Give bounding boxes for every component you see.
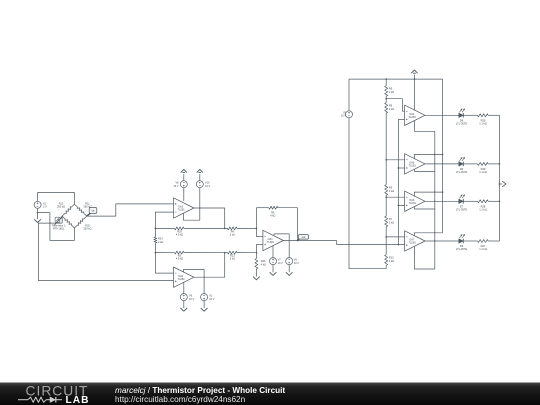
svg-text:1.1 kΩ: 1.1 kΩ [479, 247, 487, 251]
wire OA4 V- pin [414, 120, 434, 131]
supply flag above V10 [197, 169, 203, 180]
wire tap3 to OA6 - [386, 196, 404, 198]
wire ladder 2 [385, 113, 387, 185]
ground below V9 [180, 301, 187, 312]
wire OA2 output [194, 253, 225, 278]
svg-text:10 V: 10 V [294, 262, 299, 265]
wire ladder [385, 96, 387, 102]
wire V9 to OA2 [183, 282, 185, 293]
wire V8 to OA3 V+ [183, 188, 185, 201]
resistor R12 (bridge top-left) [57, 202, 74, 216]
wire signal to OA5 + [398, 167, 404, 169]
wire rail1 right [237, 227, 256, 229]
svg-text:2 kΩ: 2 kΩ [389, 91, 394, 94]
wire resistor to right rail [488, 163, 499, 165]
wire LED to resistor [464, 240, 478, 242]
op-amp OA1 [263, 230, 283, 250]
svg-text:10 V: 10 V [341, 115, 346, 118]
junction OA3 out [224, 228, 226, 230]
resistor R20 [175, 227, 185, 237]
wire V7 to OA1 [272, 246, 274, 258]
svg-text:out: out [302, 236, 306, 239]
node tag out [298, 235, 309, 241]
svg-text:RTH (kΩ): RTH (kΩ) [53, 228, 64, 231]
resistor R5 [385, 185, 395, 196]
resistor R6 (feedback) [256, 206, 297, 217]
wire ladder bottom [385, 265, 387, 268]
svg-text:2 kΩ: 2 kΩ [230, 233, 235, 236]
wire ladder 4 [385, 227, 387, 255]
svg-text:2 kΩ: 2 kΩ [389, 190, 394, 193]
svg-text:TL081: TL081 [409, 116, 417, 119]
svg-text:4 kΩ: 4 kΩ [270, 214, 275, 217]
svg-text:LTL-307E: LTL-307E [456, 247, 467, 251]
wire OA4 V+ pin [413, 79, 415, 110]
wire junction to bridge bottom [38, 213, 75, 241]
wire feedback down [297, 208, 299, 241]
resistor R24 (gain) [154, 228, 163, 252]
wire V2 to OA2 V+ [183, 270, 204, 294]
resistor R9 [385, 86, 395, 97]
junction sig3 [398, 205, 400, 207]
wire OA6 V- pin [414, 206, 434, 209]
node tag output arrow [499, 181, 506, 187]
resistor R4 [228, 227, 238, 237]
wire resistor to right rail [488, 114, 499, 116]
wire rail2 left [155, 252, 174, 254]
svg-text:LTL-307E: LTL-307E [456, 121, 467, 125]
svg-text:1.1 kΩ: 1.1 kΩ [479, 121, 487, 125]
ground below V1 [34, 213, 41, 223]
voltage source V5 [341, 79, 353, 118]
junction stage2 + [256, 252, 258, 254]
svg-text:2 V: 2 V [43, 206, 47, 209]
resistor R11 (bridge top-right) [74, 202, 91, 216]
svg-text:LTL-307E: LTL-307E [456, 170, 467, 174]
wire signal to OA4 + [398, 118, 404, 120]
resistor R30 [478, 162, 489, 174]
svg-text:TL081: TL081 [409, 165, 417, 168]
wire resistor to right rail [488, 200, 499, 202]
junction ladder top [385, 78, 387, 80]
wire OA5 V- pin [414, 169, 434, 172]
wire OA4 output [425, 114, 459, 116]
wire tap2 to OA5 - [386, 159, 404, 161]
svg-text:10 V: 10 V [173, 185, 178, 188]
junction tap4 [385, 236, 387, 238]
wire rail2 right [237, 252, 256, 254]
wire OA3 - input [155, 212, 173, 228]
op-amp OA2 [174, 267, 194, 287]
svg-text:TL081: TL081 [267, 241, 275, 244]
svg-text:TL081: TL081 [409, 202, 417, 205]
op-amp OA4 [405, 105, 425, 125]
resistor R23 [228, 251, 238, 261]
thermistor RTH1 (bridge bottom-left) [51, 216, 74, 230]
svg-text:LAB: LAB [66, 395, 90, 405]
op-amp OA7 [405, 231, 425, 251]
wire OA2 - input [155, 253, 173, 273]
wire bridge output to bottom rail [38, 223, 173, 281]
ground below V7 [270, 265, 277, 276]
wire bridge right to OA3 + [87, 204, 174, 216]
footer bar with CircuitLab logo and attribution [0, 383, 540, 405]
svg-text:1.1 kΩ: 1.1 kΩ [479, 207, 487, 211]
wire to OA1 + [256, 243, 263, 245]
wire rail2 mid [184, 252, 228, 254]
wire signal to OA6 + [398, 204, 404, 206]
svg-text:10 V: 10 V [205, 185, 210, 188]
wire OA7 output [425, 240, 459, 242]
svg-text:4.9 kΩ: 4.9 kΩ [176, 258, 183, 261]
resistor R10 [385, 255, 395, 266]
wire V6 to OA1 V+ [274, 234, 289, 258]
junction rail2 left [155, 252, 157, 254]
svg-text:250 kΩ: 250 kΩ [84, 228, 92, 231]
gap rail 3 [414, 233, 443, 236]
top rail +10V [349, 78, 443, 80]
supply flag top [411, 70, 417, 79]
svg-text:10 V: 10 V [189, 298, 194, 301]
resistor R27 [478, 240, 489, 252]
wire tap4 to OA7 - [386, 236, 404, 238]
wire resistor to right rail [488, 240, 499, 242]
junction tap1 [385, 98, 387, 100]
ground below V6 [286, 265, 293, 276]
node tag va at bridge right [87, 208, 97, 217]
wire ladder top [385, 79, 387, 86]
gap rail 2 [414, 191, 443, 196]
wire V1 top to bridge top [38, 193, 75, 205]
svg-text:TL081: TL081 [178, 209, 186, 212]
right output rail [499, 115, 501, 241]
junction stage2 - [256, 228, 258, 230]
svg-text:http://circuitlab.com/c6yrdw24: http://circuitlab.com/c6yrdw24ns62n [115, 395, 246, 404]
junction tap3 [385, 196, 387, 198]
junction tap2 [385, 159, 387, 161]
svg-text:1.1 kΩ: 1.1 kΩ [479, 170, 487, 174]
resistor R7 [385, 216, 395, 227]
wire OA1 output [283, 240, 336, 242]
right supply rail [442, 79, 443, 233]
LED D7 [456, 195, 467, 212]
wire rail1 left [155, 227, 174, 229]
voltage source V8 [173, 181, 187, 188]
voltage source V1 [34, 201, 47, 208]
svg-text:LTL-307E: LTL-307E [456, 207, 467, 211]
junction flag [414, 78, 416, 80]
op-amp OA3 [174, 198, 194, 218]
op-amp OA5 [405, 154, 425, 174]
resistor R32 (bridge bottom-right) [74, 216, 91, 230]
resistor R28 [478, 200, 489, 212]
resistor R3 [175, 251, 185, 261]
voltage source V6 [286, 258, 300, 265]
svg-text:2 kΩ: 2 kΩ [158, 241, 163, 244]
wire V5 bottom loop [349, 118, 386, 269]
V- chain vertical [434, 131, 435, 269]
wire V10 to OA3 V- [183, 188, 199, 221]
signal rail [397, 119, 399, 244]
voltage source V9 [180, 294, 194, 301]
wire signal to comparators [337, 241, 405, 246]
supply flag above V8 [181, 169, 187, 180]
junction sig4 [398, 244, 400, 246]
wire stage2 - vertical [255, 208, 257, 237]
wire tap1 to OA4 - [386, 99, 404, 112]
wire OA5 output [425, 163, 459, 165]
svg-text:2 kΩ: 2 kΩ [230, 258, 235, 261]
ground below V2 [201, 301, 208, 312]
junction OA1 out [297, 240, 299, 242]
svg-text:TL081: TL081 [178, 278, 186, 281]
svg-text:TL081: TL081 [409, 242, 417, 245]
svg-text:10 V: 10 V [278, 262, 283, 265]
svg-text:250 kΩ: 250 kΩ [57, 205, 65, 208]
wire OA6 output [425, 200, 459, 202]
wire V1 bottom to junction [37, 208, 39, 212]
junction sig2 [398, 167, 400, 169]
junction rail1 left [155, 228, 157, 230]
junction OA2 out [224, 252, 226, 254]
voltage source V2 [201, 294, 215, 301]
svg-text:2 kΩ: 2 kΩ [389, 222, 394, 225]
svg-text:2 kΩ: 2 kΩ [389, 108, 394, 111]
svg-text:2 kΩ: 2 kΩ [389, 260, 394, 263]
LED D6 [456, 234, 467, 251]
LED D9 [456, 157, 467, 174]
op-amp OA6 [405, 191, 425, 211]
gap rail 1 [414, 154, 443, 159]
wire OA3 output [194, 207, 225, 228]
svg-text:4.9 kΩ: 4.9 kΩ [176, 233, 183, 236]
ground below R26 [253, 269, 260, 280]
wire LED to resistor [464, 200, 478, 202]
wire ladder 3 [385, 195, 387, 216]
resistor R8 [385, 103, 395, 114]
LED D8 [456, 109, 467, 126]
resistor R26 [255, 259, 266, 269]
voltage source V10 [196, 181, 210, 188]
svg-text:10 V: 10 V [209, 298, 214, 301]
wire stage2 + vertical [255, 244, 257, 258]
wire bridge left vertex down [61, 216, 63, 223]
wire rail1 mid [184, 227, 228, 229]
wire to OA1 - [256, 236, 263, 238]
voltage source V7 [270, 258, 284, 265]
svg-text:marcelcj / Thermistor Project: marcelcj / Thermistor Project - Whole Ci… [115, 386, 285, 395]
svg-text:4 kΩ: 4 kΩ [261, 264, 266, 267]
resistor R29 [478, 114, 489, 126]
wire LED to resistor [464, 114, 478, 116]
junction crossing [49, 222, 50, 223]
wire OA7 V- pin [414, 246, 434, 269]
wire LED to resistor [464, 163, 478, 165]
node junction below V1 [37, 212, 39, 214]
